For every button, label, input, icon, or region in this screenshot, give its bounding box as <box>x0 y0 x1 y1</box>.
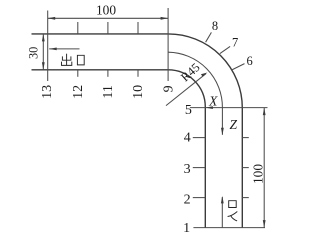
upper tick station 11 <box>107 22 109 34</box>
leader line label 8 <box>206 32 212 42</box>
svg-text:100: 100 <box>250 164 265 184</box>
arrowhead 30 dim down <box>42 62 45 70</box>
station 3 tick <box>193 167 206 169</box>
lower tick station 10 <box>137 70 139 77</box>
svg-text:X: X <box>208 94 218 109</box>
station 9 line / right extension of top dim <box>167 8 169 81</box>
dimension line 100 right <box>263 108 265 228</box>
outlet text 口 glyph <box>77 55 84 65</box>
inlet text 口 glyph <box>229 201 237 208</box>
arrowhead top dim right <box>161 17 169 20</box>
arrowhead outlet arrow <box>49 48 57 51</box>
station 5 line / X axis / right dim extension <box>190 107 268 109</box>
svg-text:13: 13 <box>40 85 55 99</box>
svg-text:12: 12 <box>71 85 86 99</box>
svg-text:7: 7 <box>232 36 238 50</box>
centerline arc R45 <box>168 52 222 107</box>
leader line label 7 <box>220 46 230 53</box>
dimension line 100 top <box>48 17 168 19</box>
arrowhead R45 leader <box>201 73 208 77</box>
leader line label 6 <box>231 64 244 71</box>
Z axis line <box>221 108 223 135</box>
inlet flow arrow line <box>221 197 223 228</box>
inner wall arc <box>168 70 205 107</box>
svg-text:4: 4 <box>184 131 191 146</box>
lower tick station 12 <box>77 70 79 77</box>
svg-text:30: 30 <box>27 47 41 59</box>
svg-text:R45: R45 <box>178 60 203 84</box>
arrowhead 30 dim up <box>42 34 45 42</box>
left wall of vertical duct <box>204 107 206 228</box>
svg-text:9: 9 <box>162 85 177 92</box>
right tick station 2 <box>242 197 249 199</box>
outer wall arc <box>168 34 242 108</box>
inlet text 入 glyph (rotated) <box>228 212 238 221</box>
R45 leader line <box>166 74 206 106</box>
svg-text:100: 100 <box>96 3 116 18</box>
lower tick station 11 <box>107 70 109 77</box>
svg-text:11: 11 <box>101 85 116 98</box>
upper tick station 12 <box>77 22 79 34</box>
svg-text:3: 3 <box>184 162 191 177</box>
svg-text:8: 8 <box>212 19 218 33</box>
arrowhead inlet arrow <box>221 196 224 204</box>
svg-text:10: 10 <box>131 85 146 99</box>
upper tick station 10 <box>137 22 139 34</box>
top wall of horizontal duct <box>32 33 169 35</box>
outlet end line / station 13 line <box>47 11 49 82</box>
arrowhead right dim down <box>263 220 266 228</box>
outlet text 出 glyph <box>62 54 72 66</box>
svg-text:1: 1 <box>183 221 190 236</box>
station 4 tick <box>193 137 206 139</box>
right wall of vertical duct <box>241 108 243 228</box>
arrowhead right dim up <box>263 108 266 116</box>
inlet end line / station 1 line <box>193 227 265 229</box>
arrowhead Z axis <box>221 128 224 136</box>
right tick station 3 <box>242 167 249 169</box>
right tick station 4 <box>242 137 249 139</box>
svg-text:2: 2 <box>184 193 191 208</box>
svg-text:5: 5 <box>185 103 192 118</box>
svg-text:6: 6 <box>246 54 252 68</box>
arrowhead top dim left <box>48 17 56 20</box>
station 2 tick <box>193 197 206 199</box>
svg-text:Z: Z <box>230 117 238 132</box>
outlet flow arrow line <box>49 48 79 50</box>
bottom wall of horizontal duct <box>32 69 169 71</box>
arrowhead X axis <box>205 106 213 109</box>
dimension line 30 left <box>42 34 44 70</box>
